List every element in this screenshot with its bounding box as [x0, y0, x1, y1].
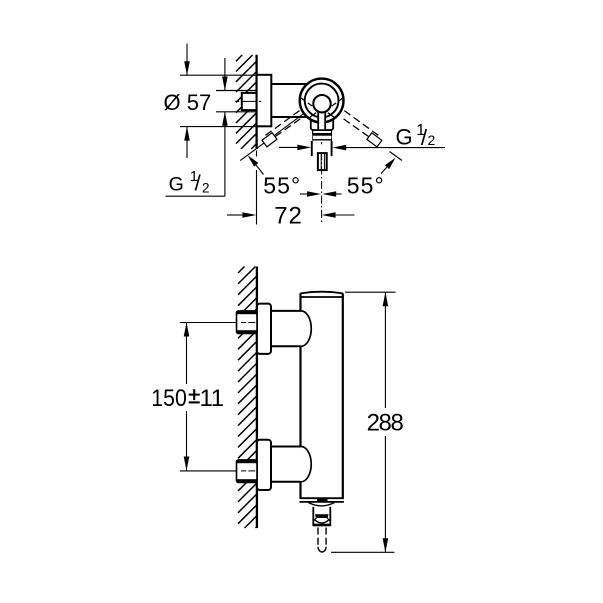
- svg-text:2: 2: [428, 132, 436, 148]
- body bottom cap: [300, 498, 344, 502]
- svg-text:288: 288: [367, 410, 404, 437]
- body tube (top view): [271, 83, 308, 85]
- svg-text:/: /: [195, 170, 202, 195]
- wall hatching (front view): [238, 267, 257, 529]
- thread dim arrow top: [222, 58, 228, 91]
- svg-text:G: G: [396, 125, 413, 150]
- wall face line (top view): [255, 55, 257, 149]
- ghost lever right (dashed, rotated 55°): [344, 111, 402, 161]
- body top cap crown: [301, 292, 343, 294]
- valve body inner circle: [305, 84, 339, 118]
- leader to diagonal: [381, 167, 387, 173]
- svg-text:55°: 55°: [263, 172, 300, 198]
- check valve dome: [314, 520, 329, 524]
- centerline dash inside flange: [259, 100, 261, 102]
- 55° right label and leaders: [322, 158, 395, 199]
- inner dark band: [315, 514, 329, 518]
- arrow to centerline: [300, 193, 309, 195]
- bottom wall nut (front view): [237, 460, 258, 483]
- 72 extension line from wall face: [256, 151, 258, 157]
- lever ball: [313, 95, 330, 112]
- svg-text:1: 1: [211, 385, 224, 412]
- bottom flange / escutcheon (front view): [257, 440, 271, 490]
- vertical centerline of handle: [321, 142, 323, 144]
- wall nut (top view): [242, 93, 257, 110]
- dimension Ø57 extension line bottom: [180, 126, 257, 128]
- valve body outer circle: [300, 79, 344, 123]
- ghost lever left axis line (55° reference): [240, 108, 311, 161]
- dimension 150±11: [151, 323, 224, 471]
- wall face line (front view): [256, 267, 258, 529]
- ghost lever left (dashed, rotated 55°): [262, 111, 300, 147]
- G 1/2 right: dimension arrows on outlet thread: [279, 145, 445, 151]
- dimension Ø57 arrow bottom: [184, 127, 190, 158]
- arrow to centerline: [336, 193, 342, 195]
- leader to diagonal: [256, 164, 264, 174]
- bottom connection centerline / 150 extension: [180, 470, 236, 472]
- thread extension line top (nut): [216, 90, 257, 92]
- body cylinder (front view): [301, 293, 343, 498]
- bottom ring: [313, 524, 331, 527]
- svg-text:2: 2: [202, 181, 210, 196]
- thread dim arrow bottom / leader to left G 1/2: [166, 112, 228, 196]
- outlet thread cylinder (top view): [312, 141, 332, 157]
- dimension Ø57 arrow top: [184, 44, 190, 76]
- body top cap seam: [300, 296, 344, 298]
- 72 dimension line and arrows: [227, 212, 355, 218]
- svg-text:72: 72: [274, 203, 302, 230]
- ghost lever dashes near ball: [301, 98, 344, 119]
- 55° left label and leaders: [248, 155, 321, 198]
- top connection tube: [271, 311, 311, 346]
- flange / escutcheon (top view): [257, 75, 272, 127]
- svg-text:G: G: [169, 173, 184, 195]
- top flange / escutcheon (front view): [257, 304, 271, 354]
- shower hose (dashed): [318, 528, 326, 553]
- label G 1/2 (right): [396, 122, 436, 150]
- bottom outlet fitting: [309, 502, 334, 526]
- lever end knob (top view): [318, 153, 327, 170]
- cartridge cap below circle: [311, 112, 333, 130]
- label G 1/2 (left): [169, 168, 210, 196]
- top wall nut (front view): [237, 311, 258, 334]
- bottom connection tube: [271, 447, 311, 482]
- thread extension line bottom (nut): [216, 111, 257, 113]
- lever neck: [318, 108, 325, 130]
- svg-text:150: 150: [151, 385, 187, 412]
- dimension 288: [331, 292, 404, 552]
- svg-text:55°: 55°: [347, 172, 384, 198]
- ghost lever right axis tick: [390, 152, 403, 161]
- grip ring band: [312, 130, 332, 141]
- connection centerline (top view): [235, 100, 261, 102]
- wall hatching (top view): [236, 55, 257, 149]
- top connection centerline / 150 extension: [180, 322, 236, 324]
- dimension Ø57 extension line top: [180, 74, 257, 76]
- svg-text:Ø 57: Ø 57: [164, 90, 212, 115]
